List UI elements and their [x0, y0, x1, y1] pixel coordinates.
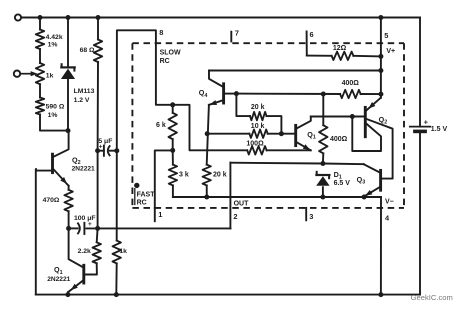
- transistor Q3 bar: [379, 170, 382, 190]
- resistor 400 ohm vertical: [319, 125, 327, 153]
- wire 6k bottom lead: [172, 139, 174, 150]
- input terminal (+) top left: [15, 14, 21, 20]
- wire 3k top lead: [172, 150, 174, 164]
- node junction dot collector rail at V+ line: [378, 68, 383, 73]
- svg-text:10 k: 10 k: [251, 123, 265, 130]
- wire 400 ohm horiz left: [236, 93, 340, 95]
- wire 20k horiz left leg: [236, 94, 250, 117]
- transistor Q3 emitter: [365, 187, 380, 196]
- transistor Q3 collector: [364, 164, 380, 172]
- svg-text:V−: V−: [385, 198, 394, 205]
- label 5uF plus: [99, 143, 103, 150]
- transistor Q2 external bar: [51, 154, 54, 172]
- wire SLOW-RC node to 100 ohm: [173, 105, 248, 151]
- svg-text:1: 1: [158, 210, 162, 219]
- resistor 1k external: [113, 241, 121, 264]
- resistor 6k: [169, 113, 177, 139]
- label 100uF: [74, 215, 96, 222]
- wire 10k right lead: [268, 133, 282, 135]
- node junction dot top rail at pin5 branch: [378, 15, 383, 20]
- svg-text:+: +: [424, 117, 429, 126]
- resistor 20k vertical: [203, 165, 211, 186]
- node junction dot pin4 on bottom rail: [378, 292, 383, 297]
- svg-text:100 μF: 100 μF: [74, 215, 96, 222]
- label LM113 1.2 V: [74, 88, 95, 104]
- node junction dot 10k/20k/Q1 base: [279, 131, 284, 136]
- wire Q1 collector to Q2 base: [311, 116, 364, 118]
- transistor Q4 bar: [222, 84, 225, 103]
- transistor Q2 emitter: [366, 98, 380, 111]
- battery + sign: [424, 117, 429, 126]
- wire D1 anode lead: [322, 187, 324, 197]
- wire 68 ohm down to 5uF: [97, 62, 99, 151]
- wire 2.2k bottom to Q1ext base: [85, 263, 97, 274]
- svg-text:2.2k: 2.2k: [78, 248, 91, 255]
- label 400 ohm vertical: [330, 136, 348, 143]
- wire 4.42k top lead: [39, 18, 41, 30]
- wire 5uF line down to 1k ext: [116, 151, 118, 241]
- node junction dot Q4 emitter / 10k: [205, 131, 210, 136]
- svg-text:2: 2: [233, 212, 237, 221]
- pin 6 lead: [306, 32, 308, 56]
- wire 2.2k top lead: [96, 228, 99, 242]
- label Q1 internal: [307, 130, 316, 141]
- label 12 ohm: [333, 45, 347, 52]
- label 6k: [156, 122, 166, 129]
- pin 1 number label: [158, 210, 162, 219]
- svg-text:6: 6: [310, 30, 314, 39]
- transistor Q4 emitter: [209, 100, 222, 105]
- pin 5 number label: [384, 31, 388, 40]
- pin 2 number label: [233, 212, 237, 221]
- svg-text:20 k: 20 k: [251, 104, 265, 111]
- node junction dot D1 anode on V- bus: [320, 195, 325, 200]
- net label SLOW RC: [160, 50, 181, 66]
- node junction dot 400 ohm rail left: [234, 91, 239, 96]
- label 20k vertical: [213, 171, 227, 178]
- watermark GeekIC.com: [411, 293, 453, 302]
- label Q3: [357, 175, 366, 186]
- svg-text:5 μF: 5 μF: [98, 138, 112, 145]
- svg-text:400Ω: 400Ω: [330, 136, 348, 143]
- label 1k pot: [46, 72, 54, 79]
- net label V-: [385, 198, 394, 205]
- wire 100uF left lead: [69, 227, 78, 229]
- label 100uF plus: [88, 221, 92, 228]
- net label FAST RC: [137, 191, 156, 206]
- svg-text:OUT: OUT: [234, 201, 250, 208]
- wire feedback bus y228: [86, 227, 230, 229]
- svg-text:GeekIC.com: GeekIC.com: [411, 293, 453, 302]
- svg-text:5: 5: [384, 31, 388, 40]
- node junction dot 6k bottom: [170, 148, 175, 153]
- transistor Q2 base wire: [352, 116, 364, 118]
- wire 470 bottom lead: [68, 211, 70, 228]
- svg-text:1.2 V: 1.2 V: [74, 97, 90, 104]
- label 10k: [251, 123, 265, 130]
- pin 3 stub: [305, 208, 307, 220]
- wire internal bottom bus: [173, 196, 381, 198]
- wire top supply rail: [21, 17, 420, 19]
- wire 400 ohm vert top lead: [322, 94, 324, 125]
- svg-text:3 k: 3 k: [179, 171, 189, 178]
- label D1 6.5V: [334, 170, 351, 187]
- transistor Q2 external base wire: [36, 170, 51, 172]
- wire 5uF up over to pin 8: [117, 30, 173, 150]
- node junction dot Q1 ext emitter: [65, 292, 70, 297]
- pin 7 number label: [235, 29, 239, 38]
- resistor 470 ohm: [64, 190, 72, 212]
- wire pin 2 lead: [229, 163, 231, 229]
- transistor Q1 external emitter: [68, 281, 82, 292]
- svg-text:1.5 V: 1.5 V: [431, 126, 448, 133]
- svg-text:RC: RC: [137, 200, 147, 207]
- wire Q1ext emitter to rail: [67, 292, 69, 295]
- node junction dot top rail at LM113: [66, 15, 71, 20]
- transistor Q1 bar: [294, 125, 297, 145]
- svg-text:7: 7: [235, 29, 239, 38]
- svg-text:2N2221: 2N2221: [47, 276, 70, 283]
- node junction dot 1k ext bottom: [114, 292, 119, 297]
- transistor Q2 collector loop to base: [352, 117, 381, 152]
- wire right edge down to battery +: [419, 18, 421, 127]
- wire Q2ext emitter to 470: [68, 186, 70, 190]
- node junction dot V+ line at 12 ohm: [378, 54, 383, 59]
- transistor Q2 external emitter: [54, 170, 69, 186]
- pin 1 stub: [154, 208, 156, 221]
- transistor Q1 external bar: [82, 265, 85, 283]
- svg-text:2N2221: 2N2221: [72, 165, 95, 172]
- zener diode D1 6.5V: [316, 172, 329, 186]
- wire 68 ohm top lead: [97, 18, 99, 40]
- label 470 ohm: [43, 197, 60, 204]
- transistor Q1 collector: [297, 117, 311, 129]
- pin 4 number label: [385, 213, 390, 222]
- wire Q2ext base line: [35, 169, 37, 295]
- node junction dot 5uF left: [95, 148, 100, 153]
- wire 400 ohm horiz right: [361, 93, 381, 95]
- transistor Q1 external collector: [69, 228, 83, 267]
- svg-text:1%: 1%: [48, 112, 58, 119]
- transistor Q4 collector: [209, 71, 222, 87]
- wire Q4 emitter down: [207, 105, 209, 165]
- label 5uF: [98, 138, 112, 145]
- pin 8 number label: [159, 28, 163, 37]
- wire 4.42k to 1k pot: [39, 49, 41, 63]
- wire 5uF right lead: [110, 150, 117, 152]
- label Q2 external 2N2221: [72, 155, 95, 172]
- label 100 ohm: [246, 140, 264, 147]
- transistor Q4 base wire: [225, 93, 237, 95]
- label 400 ohm horizontal: [342, 80, 360, 87]
- wire 6k top lead: [172, 105, 174, 113]
- wire 20k horiz right leg: [267, 116, 282, 134]
- wire pin 6 to 12 ohm: [307, 55, 332, 57]
- wire pin 5 V+ line: [380, 18, 382, 98]
- pin 7 stub: [230, 32, 232, 42]
- svg-text:68 Ω: 68 Ω: [80, 47, 95, 54]
- svg-text:LM113: LM113: [74, 88, 95, 95]
- wire 68ohm line down to 2.2k: [97, 151, 99, 229]
- node junction dot LM113/590/Q2 collector: [66, 128, 71, 133]
- wire bottom ground rail: [36, 294, 420, 296]
- label 68 ohm: [80, 47, 95, 54]
- svg-text:V+: V+: [386, 48, 395, 55]
- wire battery - down to bottom rail: [419, 132, 421, 295]
- svg-text:FAST: FAST: [137, 191, 156, 198]
- svg-text:6 k: 6 k: [156, 122, 166, 129]
- resistor 590 ohm 1%: [36, 98, 44, 115]
- svg-text:RC: RC: [160, 58, 170, 65]
- resistor 12 ohm: [332, 52, 354, 60]
- wire wiper arrow: [21, 71, 38, 76]
- wire 590 ohm down and right to LM113 anode node: [40, 115, 68, 131]
- battery value label 1.5 V: [431, 126, 448, 133]
- net label V+: [386, 48, 395, 55]
- resistor 68 ohm: [94, 40, 102, 63]
- label 590 ohm: [46, 104, 65, 120]
- resistor 4.42k 1%: [36, 30, 44, 50]
- net label OUT: [234, 201, 250, 208]
- input terminal wiper (adjust): [14, 71, 20, 77]
- node junction dot 470/100uF/Q1ext collector: [66, 226, 71, 231]
- resistor 20k horizontal: [250, 112, 267, 120]
- svg-text:1%: 1%: [48, 42, 58, 49]
- svg-text:SLOW: SLOW: [160, 50, 181, 57]
- wire 20k vert bottom lead: [206, 185, 208, 197]
- label Q2 internal: [379, 115, 388, 126]
- transistor Q2 bar: [364, 107, 367, 136]
- node junction dot 20k bottom: [204, 195, 209, 200]
- node junction dot top rail at 4.42k: [38, 15, 43, 20]
- wire Q4 collector rail to V+: [209, 70, 381, 72]
- wire 100 ohm right lead: [267, 149, 311, 151]
- svg-text:470Ω: 470Ω: [43, 197, 60, 204]
- svg-text:1k: 1k: [46, 72, 54, 79]
- transistor Q2 collector to Q3 base: [367, 119, 393, 179]
- wire pin 4 V- lead: [380, 197, 382, 295]
- label 4.42k: [46, 34, 63, 49]
- resistor 3k: [169, 165, 177, 186]
- resistor 10k: [249, 130, 267, 138]
- capacitor 5uF polarized: [104, 145, 110, 156]
- svg-text:4.42k: 4.42k: [46, 34, 63, 41]
- node junction dot Q3 emitter on V- bus: [362, 195, 367, 200]
- label 2.2k: [78, 248, 91, 255]
- svg-text:12Ω: 12Ω: [333, 45, 347, 52]
- svg-text:8: 8: [159, 28, 163, 37]
- wire 3k bottom lead: [172, 185, 174, 197]
- label Q4: [199, 88, 208, 99]
- wire 12 ohm to V+ line: [353, 55, 381, 58]
- wire 6k node to pin 1: [155, 150, 173, 208]
- svg-text:1k: 1k: [119, 248, 127, 255]
- label 20k horizontal: [251, 104, 265, 111]
- wire 5uF left lead: [98, 150, 104, 152]
- wire 1k pot to 590 ohm: [39, 84, 41, 97]
- node junction dot OUT/D1/Q3 collector: [320, 161, 325, 166]
- node junction dot pin8 internal: [170, 102, 175, 107]
- resistor 100 ohm: [247, 146, 266, 154]
- node junction dot top rail at 68 ohm: [96, 15, 101, 20]
- pin 3 number label: [309, 212, 313, 221]
- wire OUT bus: [230, 163, 363, 165]
- potentiometer 1k: [36, 63, 44, 84]
- wire 10k left lead: [207, 133, 249, 135]
- wire 400 ohm vert bottom lead: [322, 153, 324, 163]
- label 1k external: [119, 248, 127, 255]
- svg-text:3: 3: [309, 212, 313, 221]
- battery 1.5V plates: [410, 127, 430, 132]
- svg-text:100Ω: 100Ω: [246, 140, 264, 147]
- node junction dot 2.2k top: [95, 226, 100, 231]
- net node FAST RC dot: [134, 183, 139, 205]
- transistor Q1 base wire: [281, 133, 294, 135]
- svg-text:590 Ω: 590 Ω: [46, 104, 65, 111]
- wire 1k ext bottom lead: [115, 263, 117, 294]
- zener diode LM113 1.2V: [61, 64, 75, 79]
- svg-text:400Ω: 400Ω: [342, 80, 360, 87]
- resistor 2.2k: [93, 242, 101, 263]
- label 3k: [179, 171, 189, 178]
- resistor 400 ohm horizontal: [340, 90, 361, 98]
- node junction dot V+ line at 400 ohm: [378, 92, 383, 97]
- node junction dot 400 ohm vert top: [321, 92, 326, 97]
- IC boundary dashed box (LM10): [132, 43, 404, 208]
- wire LM113 anode lead: [67, 80, 69, 131]
- svg-text:20 k: 20 k: [213, 171, 227, 178]
- pin 6 number label: [310, 30, 314, 39]
- wire LM113 cathode lead: [67, 18, 69, 67]
- transistor Q1 emitter: [297, 142, 311, 150]
- svg-text:6.5 V: 6.5 V: [334, 180, 351, 187]
- node junction dot 5uF right: [114, 148, 119, 153]
- node junction dot Q2 base/collector tie: [350, 114, 355, 119]
- label Q1 external 2N2221: [47, 265, 70, 283]
- transistor Q2 external collector: [54, 131, 69, 157]
- capacitor 100uF polarized: [77, 223, 84, 235]
